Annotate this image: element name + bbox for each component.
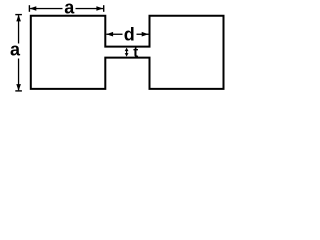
shaft right segment — [76, 8, 104, 9]
dimension a (left, vertical) — [10, 14, 22, 92]
arrow up — [125, 48, 129, 52]
shaft bottom segment — [18, 59, 19, 91]
end tick top — [15, 14, 22, 15]
arrow up — [16, 15, 21, 22]
end tick left — [29, 5, 30, 12]
dimension d (in upper notch, horizontal) — [106, 24, 148, 44]
shaft top segment — [18, 15, 19, 43]
arrow right — [96, 6, 103, 11]
end tick bottom — [15, 90, 22, 91]
dimension a (top, horizontal) — [29, 0, 105, 17]
arrow left — [106, 32, 113, 37]
shaft left segment — [106, 34, 122, 35]
arrow down — [125, 53, 129, 57]
svg-text:d: d — [124, 24, 135, 44]
dimension t (web thickness, vertical) — [125, 44, 139, 61]
shaft — [126, 50, 127, 55]
plate outline (two squares joined by thin web) — [31, 16, 224, 89]
arrow left — [30, 6, 37, 11]
end tick right — [103, 5, 104, 12]
svg-text:t: t — [133, 44, 138, 61]
shaft right segment — [137, 34, 149, 35]
shaft left segment — [30, 8, 62, 9]
arrow down — [16, 84, 21, 91]
arrow right — [142, 32, 149, 37]
svg-text:a: a — [64, 0, 75, 17]
svg-text:a: a — [10, 40, 21, 60]
